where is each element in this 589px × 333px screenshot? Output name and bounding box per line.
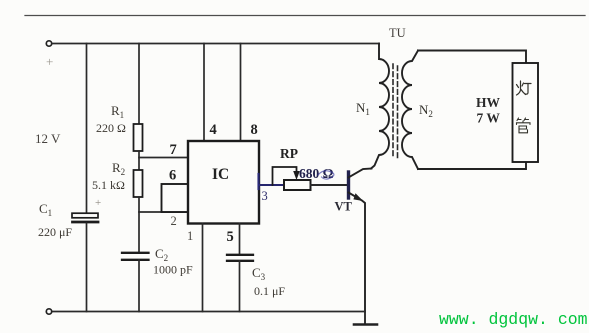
svg-text:HW: HW xyxy=(476,95,501,110)
svg-text:RP: RP xyxy=(280,146,298,161)
wire R1 branch from top rail xyxy=(138,44,140,125)
svg-text:1000 pF: 1000 pF xyxy=(153,263,193,277)
blue annotation loop over 680 xyxy=(318,171,334,179)
wire pin 5 lead to C3 xyxy=(239,224,241,255)
wire pin 7 lead xyxy=(139,157,188,159)
svg-text:8: 8 xyxy=(251,122,258,138)
label lamp tube char guan (drawn strokes) xyxy=(517,118,531,133)
wire R2 down through pin 2 junction to C2 xyxy=(138,197,140,253)
svg-text:5: 5 xyxy=(227,229,234,245)
capacitor C3 xyxy=(227,255,253,261)
wire R1 to R2 with pin 7 junction xyxy=(138,151,140,170)
capacitor C2 xyxy=(122,253,149,260)
resistor R1 xyxy=(134,124,143,151)
terminal + (positive input) xyxy=(46,41,51,46)
potentiometer RP xyxy=(273,167,311,190)
svg-text:+: + xyxy=(46,54,53,69)
ground xyxy=(354,312,377,325)
transformer TU winding N1 xyxy=(371,44,389,169)
label lamp tube char deng (drawn strokes) xyxy=(517,81,532,95)
wire C1 branch lower segment xyxy=(86,223,88,311)
resistor R2 xyxy=(134,170,143,197)
wire pin 3 lead (blue annotated) xyxy=(259,184,284,186)
wire bottom rail xyxy=(52,311,365,313)
svg-text:+: + xyxy=(95,197,101,209)
wire C2 to bottom rail xyxy=(138,260,140,312)
wire top rail from + terminal to transformer N1 xyxy=(52,43,379,45)
capacitor C1 (electrolytic, polarized) xyxy=(72,213,98,222)
svg-text:6: 6 xyxy=(169,168,176,184)
wire pin 8 lead from top rail xyxy=(240,44,242,142)
transformer core xyxy=(393,64,398,158)
box between pin 6 and pin 2 xyxy=(162,184,189,212)
svg-text:220 μF: 220 μF xyxy=(38,225,72,239)
svg-text:2: 2 xyxy=(171,214,177,228)
lamp (fluorescent tube) xyxy=(513,63,539,162)
svg-text:4: 4 xyxy=(210,122,217,138)
transistor Q1 VT xyxy=(349,169,372,312)
svg-text:0.1 μF: 0.1 μF xyxy=(254,284,285,298)
svg-text:7: 7 xyxy=(170,142,177,158)
wire C3 to bottom rail xyxy=(239,261,241,312)
svg-text:IC: IC xyxy=(212,166,229,183)
svg-text:5.1 kΩ: 5.1 kΩ xyxy=(92,178,125,192)
label HW 7W xyxy=(476,95,501,126)
op-amp U1 (IC block) xyxy=(188,141,259,224)
terminal - (negative input) xyxy=(46,309,51,314)
node pin 3 blue mark xyxy=(257,174,259,189)
wire N2 top to lamp xyxy=(418,51,526,64)
svg-text:3: 3 xyxy=(262,189,268,203)
svg-text:7 W: 7 W xyxy=(477,111,501,126)
wire lamp bottom to N2 xyxy=(418,162,526,169)
svg-text:TU: TU xyxy=(389,26,406,40)
svg-text:VT: VT xyxy=(335,200,353,214)
svg-text:220 Ω: 220 Ω xyxy=(96,121,126,135)
wire C1 branch upper segment xyxy=(86,44,88,214)
wire pin 2 lead xyxy=(139,211,188,213)
wire pin 4 lead from top rail xyxy=(203,44,205,142)
transformer winding N2 xyxy=(402,51,418,170)
wire RP to VT base xyxy=(311,184,348,186)
wire pin 1 lead to bottom rail xyxy=(202,224,204,312)
svg-text:12 V: 12 V xyxy=(35,131,61,146)
svg-text:www. dgdqw. com: www. dgdqw. com xyxy=(439,310,588,329)
svg-text:1: 1 xyxy=(187,229,193,243)
